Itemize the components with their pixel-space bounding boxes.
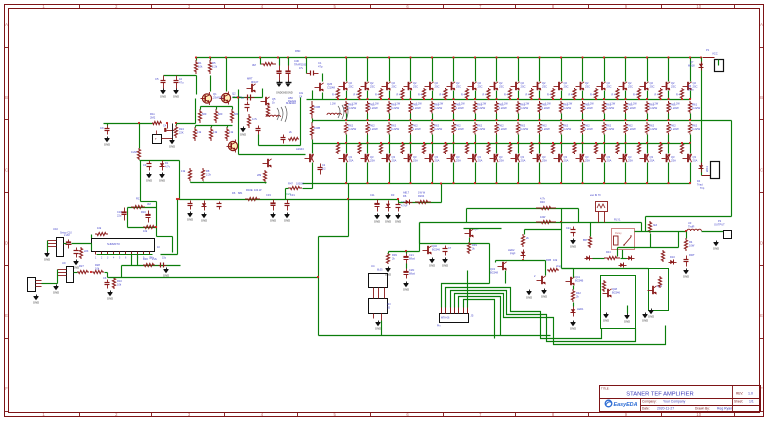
svg-text:GND: GND [375,326,381,330]
svg-text:2SA: 2SA [478,159,483,163]
svg-text:Q2: Q2 [413,81,417,85]
svg-text:GND: GND [240,132,246,136]
svg-text:R1: R1 [198,61,202,65]
svg-text:GND: GND [104,142,110,146]
svg-text:VCC: VCC [712,52,718,56]
svg-text:Q48: Q48 [612,287,617,291]
svg-text:Q3: Q3 [585,155,589,159]
svg-text:GND: GND [442,263,448,267]
svg-text:Q3: Q3 [542,155,546,159]
svg-text:Drawn By:: Drawn By: [695,407,710,411]
svg-text:1.2W: 1.2W [545,103,551,106]
svg-text:2.2k: 2.2k [212,65,218,69]
svg-text:Q2: Q2 [478,81,482,85]
svg-text:Sheet:: Sheet: [734,400,743,404]
svg-text:2SA: 2SA [542,159,547,163]
svg-text:0.22W: 0.22W [456,127,464,131]
svg-text:U3: U3 [688,221,692,225]
svg-text:1.2W: 1.2W [653,103,659,106]
svg-text:GND: GND [570,326,576,330]
svg-text:R11: R11 [150,112,155,116]
svg-text:R4: R4 [689,240,693,244]
svg-text:15u: 15u [162,257,167,260]
svg-text:R47: R47 [288,182,293,186]
svg-text:560: 560 [218,112,223,116]
svg-text:Trip: Trip [700,187,705,190]
svg-text:2.2k: 2.2k [206,173,212,177]
svg-text:9F107: 9F107 [251,80,259,84]
svg-text:D6: D6 [403,194,407,198]
svg-text:2SA: 2SA [585,159,590,163]
svg-text:MA18: MA18 [688,65,695,68]
svg-text:Q2: Q2 [435,81,439,85]
svg-text:Q2: Q2 [370,81,374,85]
svg-text:22K: 22K [179,131,184,135]
svg-text:P1: P1 [706,48,710,52]
svg-text:68ud: 68ud [409,257,415,261]
svg-text:D3: D3 [391,193,395,197]
svg-text:C: C [760,168,763,173]
svg-text:BC546: BC546 [432,248,440,252]
svg-text:0.22W: 0.22W [542,127,550,131]
svg-text:EasyEDA: EasyEDA [614,402,638,408]
svg-text:C6: C6 [103,276,107,280]
svg-text:B5T: B5T [583,239,588,242]
svg-text:10: 10 [696,4,701,9]
svg-text:Q3: Q3 [370,155,374,159]
svg-text:GND: GND [163,273,169,277]
svg-text:1.2W: 1.2W [610,103,616,106]
svg-text:F: F [5,386,8,391]
svg-text:Q3: Q3 [349,155,353,159]
svg-text:GND: GND [395,219,401,223]
svg-text:0.22W: 0.22W [477,106,485,110]
svg-text:R 4: R 4 [440,94,445,97]
svg-text:0.22W: 0.22W [671,127,679,131]
svg-text:R3B: R3B [546,258,551,262]
svg-text:R30: R30 [143,257,148,261]
svg-text:GND: GND [53,290,59,294]
svg-text:P2: P2 [718,219,722,223]
svg-text:1W W: 1W W [418,191,426,195]
svg-text:2mg: 2mg [556,265,561,268]
svg-text:4.7v: 4.7v [165,165,171,169]
svg-text:R204: R204 [418,194,425,198]
svg-text:C33: C33 [266,193,271,197]
svg-text:0.22W: 0.22W [413,106,421,110]
svg-text:Date:: Date: [642,407,650,411]
svg-text:R8: R8 [206,169,210,173]
svg-text:D10: D10 [670,255,675,259]
svg-text:Q3: Q3 [499,155,503,159]
svg-text:C3: C3 [143,163,147,167]
svg-text:13k: 13k [213,130,218,134]
svg-text:1.2W: 1.2W [631,103,637,106]
svg-text:WX3: WX3 [705,166,709,172]
svg-text:Q2: Q2 [564,81,568,85]
svg-text:2SC: 2SC [628,85,633,89]
svg-text:R16: R16 [141,210,146,214]
svg-text:Q5: Q5 [272,97,276,101]
svg-text:GND: GND [429,263,435,267]
svg-text:2.2k: 2.2k [152,257,158,261]
svg-text:C2N: C2N [409,268,414,272]
svg-text:R 4: R 4 [483,94,488,97]
svg-text:1.2W: 1.2W [481,103,487,106]
svg-text:C3248: C3248 [327,86,335,90]
svg-text:3M: 3M [147,202,151,206]
svg-text:R6N: R6N [295,49,300,53]
svg-text:R46: R46 [540,200,545,204]
svg-text:68ud: 68ud [409,272,415,276]
svg-text:Q3: Q3 [413,155,417,159]
svg-text:Q2: Q2 [232,92,236,96]
svg-text:22u: 22u [117,214,122,218]
svg-text:0.22W: 0.22W [692,106,700,110]
svg-text:Q2: Q2 [671,81,675,85]
svg-text:GND: GND [541,294,547,298]
svg-text:GND: GND [642,318,648,322]
svg-text:1.2W: 1.2W [674,103,680,106]
svg-text:R5: R5 [212,61,216,65]
svg-text:2SC: 2SC [349,85,354,89]
svg-text:R 4: R 4 [526,94,531,97]
svg-text:10: 10 [179,77,182,81]
svg-text:GND: GND [603,318,609,322]
svg-text:Q1: Q1 [213,92,217,96]
svg-text:0.22W: 0.22W [456,106,464,110]
svg-text:1.2W: 1.2W [588,103,594,106]
svg-text:Q3: Q3 [650,155,654,159]
svg-text:0.22W: 0.22W [499,106,507,110]
svg-text:2SA: 2SA [456,159,461,163]
svg-text:TITLE:: TITLE: [601,387,610,391]
svg-text:R28: R28 [95,263,100,267]
svg-text:1.2W: 1.2W [524,103,530,106]
svg-text:GND: GND [146,178,152,182]
svg-text:881: 881 [238,191,243,195]
svg-text:0.22W: 0.22W [520,106,528,110]
svg-text:Q2: Q2 [607,81,611,85]
svg-text:ThdR: ThdR [688,225,694,229]
svg-text:GND: GND [284,218,290,222]
svg-text:3k3: 3k3 [653,224,658,227]
svg-text:0.2M: 0.2M [131,150,137,154]
svg-text:C5: C5 [155,77,159,81]
svg-text:4.7uF: 4.7uF [401,204,408,208]
svg-text:Q2: Q2 [456,81,460,85]
svg-text:2SA: 2SA [392,159,397,163]
svg-text:GND: GND [624,319,630,323]
svg-text:2SC: 2SC [671,85,676,89]
svg-text:0.22W: 0.22W [692,127,700,131]
svg-text:2M2: 2M2 [150,116,156,120]
svg-text:D6: D6 [232,191,236,195]
svg-text:Company:: Company: [642,400,657,404]
svg-text:4.7k: 4.7k [252,117,258,121]
svg-text:R0/T: R0/T [689,253,695,257]
svg-text:C: C [5,168,8,173]
svg-text:Q3: Q3 [607,155,611,159]
svg-text:C21: C21 [409,253,414,257]
svg-text:Q2: Q2 [542,81,546,85]
svg-text:2SC: 2SC [650,85,655,89]
svg-text:10k: 10k [95,267,100,271]
svg-text:R 4: R 4 [504,94,509,97]
svg-text:LED2: LED2 [508,248,515,252]
svg-text:REV:: REV: [736,392,743,396]
svg-text:SJM2073: SJM2073 [107,242,120,246]
svg-text:2SC: 2SC [392,85,397,89]
svg-text:R44: R44 [606,251,611,254]
svg-text:GND: GND [270,218,276,222]
svg-text:A: A [5,22,8,27]
svg-text:107a: 107a [688,89,694,92]
svg-text:560: 560 [202,112,207,116]
svg-text:GND: GND [648,314,654,318]
svg-text:GND: GND [385,219,391,223]
svg-text:GND: GND [107,296,113,300]
svg-text:2020-11-27: 2020-11-27 [657,407,674,411]
svg-text:2SA: 2SA [413,159,418,163]
svg-text:T: T [155,137,157,141]
svg-text:MTA-06: MTA-06 [441,317,450,320]
svg-text:D1: D1 [165,161,169,165]
svg-text:J5: J5 [471,314,474,318]
svg-text:10k: 10k [97,226,102,230]
svg-text:U9: U9 [62,261,66,265]
svg-text:2SC: 2SC [370,85,375,89]
svg-text:Q43: Q43 [490,267,495,271]
svg-text:8.2: 8.2 [322,168,326,171]
svg-text:R16E: R16E [246,188,253,192]
svg-text:Q41: Q41 [575,275,580,279]
svg-text:0.22W: 0.22W [606,127,614,131]
svg-text:0.22W: 0.22W [520,127,528,131]
svg-text:0.22W: 0.22W [477,127,485,131]
svg-text:BC546: BC546 [612,291,620,295]
svg-text:Q2: Q2 [650,81,654,85]
svg-text:Q2: Q2 [521,81,525,85]
svg-text:0.22W: 0.22W [585,127,593,131]
svg-text:2SA: 2SA [521,159,526,163]
svg-text:R42: R42 [576,291,581,295]
svg-text:OUTPUT: OUTPUT [714,223,725,227]
svg-text:B: B [5,95,8,100]
svg-text:1.2W: 1.2W [567,103,573,106]
svg-text:Q3: Q3 [564,155,568,159]
svg-text:Q2: Q2 [693,81,697,85]
svg-text:Q3: Q3 [392,155,396,159]
svg-text:R10: R10 [117,279,122,283]
svg-text:Q2: Q2 [499,81,503,85]
svg-text:R 4: R 4 [633,94,638,97]
svg-text:1.2W: 1.2W [416,103,422,106]
svg-text:R 4: R 4 [354,94,359,97]
svg-text:R 4: R 4 [332,94,337,97]
svg-text:Q3: Q3 [456,155,460,159]
svg-text:Q26: Q26 [327,82,333,86]
svg-text:GND: GND [683,274,689,278]
svg-text:2SA: 2SA [564,159,569,163]
svg-text:4N: 4N [387,302,390,306]
svg-text:C9: C9 [100,126,104,130]
svg-text:BC548: BC548 [490,271,498,275]
svg-text:2SC: 2SC [585,85,590,89]
svg-text:GND: GND [201,218,207,222]
svg-text:R 4: R 4 [397,94,402,97]
svg-text:0.22W: 0.22W [649,106,657,110]
svg-text:STANER TEF AMPLIFIER: STANER TEF AMPLIFIER [626,392,693,398]
svg-text:2SC: 2SC [564,85,569,89]
svg-text:MRT: MRT [247,77,253,81]
svg-text:1.2W: 1.2W [330,103,336,106]
svg-text:0.22W: 0.22W [391,127,399,131]
svg-text:10k: 10k [117,283,122,287]
svg-text:A: A [760,22,763,27]
svg-text:10k: 10k [143,229,148,233]
svg-text:1.2W: 1.2W [502,103,508,106]
svg-text:2SA: 2SA [499,159,504,163]
svg-text:R 4: R 4 [569,94,574,97]
svg-text:13k: 13k [229,130,234,134]
svg-text:2SC: 2SC [413,85,418,89]
svg-text:C24: C24 [566,227,571,230]
svg-text:0.22W: 0.22W [370,127,378,131]
svg-text:LED1: LED1 [577,307,584,311]
svg-text:8L05: 8L05 [377,269,383,272]
svg-text:R 4: R 4 [676,94,681,97]
svg-text:2SC: 2SC [478,85,483,89]
svg-text:Q3: Q3 [671,155,675,159]
svg-text:U4: U4 [371,264,375,268]
svg-text:GND: GND [713,246,719,250]
svg-text:2SC: 2SC [456,85,461,89]
svg-text:E: E [5,313,8,318]
svg-text:0.22W: 0.22W [628,106,636,110]
svg-text:R 4: R 4 [375,94,380,97]
svg-text:1.0: 1.0 [748,392,753,396]
svg-text:2SA: 2SA [607,159,612,163]
svg-text:C30: C30 [294,59,299,63]
svg-text:GNDGNDGND: GNDGNDGND [276,92,293,95]
svg-text:1.2W: 1.2W [459,103,465,106]
svg-text:B: B [760,95,763,100]
svg-text:R 4: R 4 [461,94,466,97]
svg-text:2SC: 2SC [435,85,440,89]
svg-text:0.22W: 0.22W [434,127,442,131]
svg-text:0.22W: 0.22W [649,127,657,131]
svg-text:22K: 22K [84,250,89,253]
svg-text:0.22W: 0.22W [585,106,593,110]
svg-text:Q3: Q3 [478,155,482,159]
svg-text:0.22W: 0.22W [542,106,550,110]
svg-text:GND: GND [570,244,576,248]
svg-text:GND: GND [159,178,165,182]
svg-text:Q3: Q3 [693,155,697,159]
svg-text:2SA: 2SA [650,159,655,163]
svg-text:BC54B: BC54B [575,279,583,283]
svg-text:10k: 10k [198,65,203,69]
svg-text:C1: C1 [318,61,322,65]
svg-text:2SC: 2SC [607,85,612,89]
svg-text:Radstk: Radstk [288,99,297,103]
svg-text:2SC: 2SC [542,85,547,89]
svg-text:2SA: 2SA [370,159,375,163]
svg-text:Reg Ryan: Reg Ryan [717,407,732,411]
svg-text:A1943: A1943 [296,147,304,151]
svg-text:1.2W: 1.2W [395,103,401,106]
svg-text:1/1: 1/1 [749,400,754,404]
svg-text:0.22W: 0.22W [628,127,636,131]
svg-text:E: E [760,313,763,318]
svg-text:2SA: 2SA [671,159,676,163]
svg-text:2SA: 2SA [349,159,354,163]
svg-text:R24: R24 [179,127,184,131]
svg-text:10k: 10k [553,258,558,262]
svg-text:GND: GND [169,144,175,148]
svg-text:100GK: 100GK [296,183,304,186]
svg-text:47u: 47u [179,81,184,85]
svg-text:R 4: R 4 [655,94,660,97]
svg-text:D: D [5,240,8,245]
svg-text:100B: 100B [314,105,320,109]
svg-text:47p: 47p [318,65,323,69]
svg-text:R 4: R 4 [590,94,595,97]
svg-text:104 W: 104 W [254,188,262,192]
svg-text:1.2W: 1.2W [373,103,379,106]
svg-text:28k: 28k [257,173,262,177]
svg-text:0.22W: 0.22W [671,106,679,110]
svg-text:Q2: Q2 [585,81,589,85]
svg-text:Your Company: Your Company [663,400,686,404]
svg-text:0.22W: 0.22W [606,106,614,110]
svg-text:0.22W: 0.22W [434,106,442,110]
svg-text:2.2M: 2.2M [64,234,70,237]
svg-text:GND: GND [403,287,409,291]
svg-text:Q3: Q3 [628,155,632,159]
svg-text:GND: GND [374,219,380,223]
svg-text:100B: 100B [314,126,320,130]
svg-text:Relay: Relay [615,231,622,235]
svg-text:Q3: Q3 [521,155,525,159]
svg-text:R 4: R 4 [612,94,617,97]
svg-text:C11: C11 [370,193,375,197]
svg-text:0.22W: 0.22W [563,106,571,110]
svg-text:GND: GND [187,217,193,221]
svg-text:0.22W: 0.22W [563,127,571,131]
svg-text:U10: U10 [53,227,58,231]
svg-text:GND: GND [526,295,532,299]
svg-text:GND: GND [173,94,179,98]
svg-text:A817: A817 [403,191,410,195]
svg-text:eso IN HI: eso IN HI [590,194,601,197]
svg-text:2SC: 2SC [521,85,526,89]
svg-text:Q2: Q2 [349,81,353,85]
svg-text:10W: 10W [689,244,695,248]
svg-text:GND: GND [33,300,39,304]
svg-text:2SA: 2SA [435,159,440,163]
svg-text:0.22W: 0.22W [370,106,378,110]
svg-text:1.2W: 1.2W [438,103,444,106]
svg-text:2SA: 2SA [628,159,633,163]
svg-text:R39: R39 [392,253,397,257]
svg-text:Q3: Q3 [435,155,439,159]
svg-text:0.22W: 0.22W [348,106,356,110]
svg-text:C16: C16 [117,210,122,214]
svg-text:2SA: 2SA [693,159,698,163]
svg-text:0.22W: 0.22W [391,106,399,110]
